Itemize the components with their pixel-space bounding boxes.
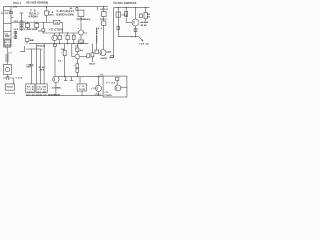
svg-text:4B: 4B: [147, 16, 150, 19]
wire chain x103 top: [103, 7, 105, 12]
wire stub x70 tick: [70, 8, 72, 10]
meter P1 box: [4, 65, 12, 75]
stabilizer box U1: [103, 76, 127, 97]
transistor T7 bar: [52, 37, 54, 40]
svg-text:VA OB: VA OB: [37, 85, 46, 88]
transistor T5 bar: [116, 87, 118, 90]
wire right drop x146: [145, 8, 147, 13]
wire LB stub: [81, 91, 83, 96]
wire right bus: [114, 7, 150, 9]
svg-text:500n: 500n: [26, 67, 31, 69]
svg-text:4B: 4B: [147, 13, 150, 16]
svg-text:+: +: [61, 52, 63, 54]
svg-text:HOR AMPL: HOR AMPL: [95, 29, 98, 45]
wire bottom bus: [26, 95, 103, 97]
wire T3 emitter low: [76, 72, 78, 76]
svg-text:+: +: [73, 65, 75, 67]
wire drop x62: [62, 23, 64, 34]
svg-text:VD4 4B: VD4 4B: [139, 43, 149, 46]
diode VD5 box: [20, 26, 23, 30]
svg-text:VD VDYB/DOM: VD VDYB/DOM: [48, 95, 60, 97]
svg-text:aB: aB: [55, 23, 59, 25]
svg-text:500w: 500w: [49, 14, 54, 16]
wire drop x40: [40, 49, 42, 84]
component on rail: [10, 12, 12, 14]
wire T3 top chain: [76, 44, 78, 48]
node x46 top: [46, 6, 47, 7]
svg-text:0.25A: 0.25A: [16, 77, 23, 80]
svg-text:CTBPH: CTBPH: [104, 95, 112, 97]
node y76 x77: [77, 76, 78, 77]
svg-text:D+D4W FE/AP: D+D4W FE/AP: [24, 28, 38, 31]
wire diode column tick: [20, 12, 24, 14]
diode D42 box: [134, 29, 137, 32]
wire rung A: [4, 10, 12, 12]
diode D15b box: [14, 36, 17, 38]
node y36 x135: [135, 36, 136, 37]
wire Q collector: [135, 8, 137, 19]
wire chain x46 top: [46, 7, 48, 11]
wire base drop x71: [71, 44, 73, 57]
capacitor C22 box: [76, 8, 78, 11]
capacitor C5a plate1: [29, 63, 33, 65]
svg-text:+T7 CTBTA: +T7 CTBTA: [49, 28, 63, 31]
resistor R40b box: [91, 53, 94, 57]
wire T7 emitter: [54, 41, 56, 44]
wire chain x59 low: [59, 40, 61, 44]
wire chain x103 low: [103, 25, 105, 49]
wire drop x43: [42, 23, 44, 29]
transistor T8 circle: [79, 30, 84, 35]
resistor R7 box: [45, 11, 49, 15]
transistor T9 bar: [101, 51, 103, 54]
capacitor C2 plate1: [5, 34, 10, 36]
wire hang2 lower stub: [36, 28, 38, 29]
wire line y33: [42, 32, 79, 34]
wire T3 right lead: [80, 55, 87, 57]
resistor VA box: [36, 84, 47, 93]
wire bottom left lead: [3, 77, 6, 79]
svg-text:150u: 150u: [27, 91, 34, 93]
svg-text:PE3.1: PE3.1: [14, 2, 22, 5]
svg-text:P2 BA: P2 BA: [107, 82, 116, 85]
wire mid bus: [11, 22, 54, 24]
diode D15a box: [14, 32, 17, 34]
svg-text:(A)B: (A)B: [107, 50, 112, 53]
node right bus 135: [135, 7, 136, 8]
wire T8 emitter: [80, 35, 82, 40]
capacitor C9 plate2: [8, 76, 10, 80]
wire chain x46 mid: [46, 15, 48, 22]
svg-text:VD/AP: VD/AP: [30, 39, 35, 42]
svg-text:B.MCCA(+150V): B.MCCA(+150V): [57, 14, 75, 17]
svg-text:AX 49-AXB 40: AX 49-AXB 40: [26, 94, 47, 97]
wire right drop x118: [117, 8, 119, 37]
svg-text:+2B: +2B: [98, 75, 103, 77]
wire T5 collector: [116, 80, 118, 85]
node right bus 126: [126, 7, 127, 8]
wire long line y43: [29, 43, 89, 45]
wire T2 emitter: [55, 83, 57, 96]
resistor R27 box: [102, 21, 106, 25]
wire diode column: [20, 13, 22, 31]
wire T3 base lead: [72, 56, 75, 58]
transistor Q1 circle: [132, 19, 139, 26]
svg-text:VD5: VD5: [14, 29, 19, 31]
wire chain x103 mid: [103, 17, 105, 22]
capacitor C5a plate2: [29, 65, 33, 67]
wire line y36: [118, 36, 139, 38]
transistor T2 bar: [54, 78, 56, 81]
wire hang2 stub: [36, 23, 38, 24]
svg-text:4 POM4: 4 POM4: [29, 15, 39, 18]
svg-text:100u B: 100u B: [89, 63, 95, 65]
wire x92 drop: [91, 44, 93, 53]
resistor R39b box: [76, 68, 79, 72]
svg-text:VFD/VDRM(+4%): VFD/VDRM(+4%): [76, 18, 90, 21]
node y43 x59: [59, 43, 60, 44]
inductor L1 tick3: [5, 58, 9, 60]
wire x24 drop: [24, 46, 26, 52]
svg-text:VD1-VD2-VD5(VD6): VD1-VD2-VD5(VD6): [26, 2, 48, 5]
svg-text:4u: 4u: [84, 31, 88, 34]
capacitor C12 box: [35, 24, 39, 28]
ground G1 stem: [65, 77, 67, 81]
svg-text:E/D 70: E/D 70: [100, 19, 107, 21]
resistor U1R box: [116, 77, 119, 80]
wire chain x73 low: [73, 40, 75, 44]
svg-text:VD94-98: VD94-98: [37, 44, 46, 47]
resistor R38 box: [76, 48, 79, 52]
svg-text:C4(-): C4(-): [122, 14, 128, 17]
capacitor C54 box: [63, 50, 66, 55]
svg-text:LB: LB: [79, 86, 84, 88]
wire chain x73 stub: [73, 33, 75, 35]
node midbus x36: [36, 22, 37, 23]
capacitor C50 box: [58, 36, 61, 40]
svg-text:TO VDU ADDRESS: TO VDU ADDRESS: [113, 2, 136, 5]
diode VD3 box: [20, 21, 23, 25]
ground G2 stem: [70, 77, 72, 81]
wire chain x81 mid: [80, 17, 82, 31]
resistor R39a box: [76, 64, 79, 68]
resistor R36 box: [53, 44, 56, 46]
wire drop x36: [35, 44, 37, 84]
resistor LB box: [77, 84, 87, 91]
wire T3 collector: [76, 52, 78, 55]
node midbus x43: [43, 22, 44, 23]
diode VD4 diagonal: [139, 37, 143, 41]
capacitor C9 plate1: [5, 76, 7, 80]
transistor T3 circle: [75, 54, 80, 59]
svg-text:A4 4B4A: A4 4B4A: [141, 21, 149, 24]
inductor DR box: [144, 12, 147, 18]
svg-text:4u: 4u: [75, 45, 79, 48]
capacitor C52 box: [66, 36, 69, 40]
resistor R5 box: [5, 40, 11, 46]
resistor R20 box: [73, 35, 76, 39]
fuse FU1 box: [5, 84, 14, 90]
svg-text:1.5: 1.5: [8, 53, 12, 55]
svg-text:B4: B4: [80, 49, 84, 52]
wire mid bus end: [60, 22, 63, 24]
diode D41 box: [117, 27, 120, 30]
transistor Q1 bar: [133, 21, 135, 24]
diode VD4 arrowhead: [141, 39, 143, 41]
wire chain x59 stub: [59, 33, 61, 36]
svg-text:1B: 1B: [38, 30, 41, 32]
wire DR stub: [145, 19, 147, 21]
node y43 x73: [73, 43, 74, 44]
wire drop x31: [30, 49, 32, 64]
svg-text:LTB 4: LTB 4: [95, 93, 102, 96]
wire chain x77 top: [76, 7, 78, 8]
wire bus y76: [59, 76, 104, 78]
resistor R26 box: [102, 11, 107, 16]
wire diode stub: [26, 41, 28, 43]
resistor R22 box: [78, 10, 84, 16]
capacitor C2 plate2: [5, 36, 10, 38]
wire drop x31 low: [30, 66, 32, 84]
wire right drop x126: [125, 8, 127, 23]
wire rung E: [4, 46, 12, 48]
resistor R33 box: [95, 50, 99, 54]
node x103 top: [103, 6, 104, 7]
node y43 x67: [67, 43, 68, 44]
transistor T9 circle: [100, 50, 106, 56]
node y33 x67: [67, 32, 68, 33]
wire right rail: [113, 8, 115, 58]
svg-text:U-BOM: U-BOM: [100, 58, 107, 60]
component K1 box: [54, 20, 60, 24]
wire rail tick: [11, 17, 14, 19]
wire x96 drop: [96, 28, 98, 51]
wire rung B: [4, 22, 12, 24]
wire Q base: [126, 22, 132, 24]
node right bus 145: [145, 7, 146, 8]
inductor L1 tick1: [5, 54, 9, 56]
wire ladder right rail: [10, 7, 12, 48]
node y33 x59: [59, 32, 60, 33]
transistor T2 circle: [53, 76, 59, 82]
meter P1 circle: [5, 67, 9, 71]
capacitor C11 box: [26, 24, 30, 28]
svg-text:+: +: [78, 28, 80, 30]
svg-text:AX 4B: AX 4B: [37, 90, 46, 93]
svg-text:B VM3: B VM3: [1, 13, 11, 15]
wire TL emitter: [98, 92, 100, 96]
wire LB feed: [79, 77, 81, 84]
wire line y51: [20, 51, 25, 53]
transistor TL circle: [95, 85, 101, 91]
wire x92 low: [91, 57, 93, 62]
svg-text:A4: A4: [98, 27, 103, 30]
wire top bus: [4, 6, 109, 8]
diode VD90 blob: [25, 38, 29, 41]
ground G1 tick: [64, 80, 67, 82]
wire cap to fuse: [9, 78, 14, 84]
inductor L1 tick4: [5, 60, 9, 62]
wire T2 chain stub: [54, 43, 56, 45]
inductor L1 stem: [6, 47, 8, 64]
svg-text:DA: DA: [58, 60, 62, 63]
diode D15 column: [14, 31, 16, 39]
transistor TL bar: [96, 87, 98, 90]
svg-text:+TL: +TL: [91, 88, 96, 90]
node y76 x98: [98, 76, 99, 77]
resistor R40a box: [87, 54, 90, 58]
wire rung D: [4, 38, 12, 40]
resistor R14 box: [42, 29, 45, 32]
svg-text:7/9W: 7/9W: [79, 89, 85, 91]
svg-text:+T5: +T5: [104, 92, 109, 94]
wire drop x44: [43, 44, 45, 84]
node right bus 118: [118, 7, 119, 8]
resistor R43 box: [139, 14, 142, 18]
ground G2 tick: [70, 80, 73, 82]
node y43 x53: [54, 43, 55, 44]
svg-text:FU1.04: FU1.04: [7, 86, 14, 89]
wire Q emitter: [135, 26, 137, 37]
wire C54 low: [64, 56, 66, 77]
wire line y49: [27, 48, 42, 50]
svg-text:4B 4B: 4B 4B: [141, 24, 147, 27]
wire T3 emitter: [76, 59, 78, 64]
wire meter stub: [7, 75, 9, 79]
resistor RX box: [26, 84, 35, 93]
transistor T5 circle: [115, 85, 121, 91]
wire stub x97: [96, 7, 98, 10]
wire chain x67 stub: [67, 33, 69, 36]
node midbus x27: [27, 22, 28, 23]
wire chain x67 low: [67, 40, 69, 44]
wire ladder left rail: [3, 7, 5, 48]
wire C54 drop: [64, 44, 66, 51]
svg-text:DR 434: DR 434: [100, 8, 108, 11]
wire stub x70 top: [70, 7, 72, 9]
resistor R42 box: [125, 11, 128, 16]
wire drop x43 low: [42, 32, 44, 33]
transistor T7 circle: [52, 35, 57, 40]
svg-text:Fu/set 04: Fu/set 04: [5, 92, 16, 95]
wire TL feed: [97, 77, 99, 86]
wire hang1 lower stub: [27, 28, 29, 29]
svg-text:+T2 CTBTA: +T2 CTBTA: [51, 86, 61, 89]
wire rail corner: [109, 57, 114, 59]
component corner box: [111, 55, 114, 57]
svg-text:+50 B: +50 B: [39, 70, 45, 72]
node y76 x64: [64, 76, 65, 77]
resistor R23 box: [78, 40, 84, 44]
wire rung C: [4, 30, 12, 32]
node y36 x132: [131, 36, 132, 37]
node y43 x81: [80, 43, 81, 44]
resistor R41 box: [116, 12, 121, 17]
wire T2 feed: [54, 46, 56, 76]
wire hang1 stub: [27, 23, 29, 24]
inductor L1 tick2: [5, 56, 9, 58]
wire T5 right lead: [121, 86, 127, 88]
wire T7 top stub: [54, 33, 56, 35]
